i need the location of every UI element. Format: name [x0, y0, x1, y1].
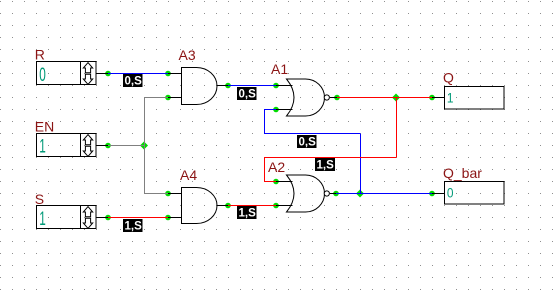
- node pin dot R output: [105, 71, 111, 77]
- svg-text:A4: A4: [180, 167, 197, 183]
- node pin dot A2 input top: [273, 179, 279, 185]
- wire A2out to A1 blue segment c: [264, 133, 360, 135]
- wire Qbar net blue: [336, 193, 432, 195]
- svg-text:A2: A2: [268, 159, 285, 175]
- NOR gate U A2: [283, 175, 329, 212]
- node pin dot A3 input top: [165, 71, 171, 77]
- input switch S: [37, 206, 97, 230]
- wire A1 output stub black: [330, 97, 337, 99]
- wire Q feedback red horizontal: [264, 157, 396, 159]
- junction node Q feedback: [392, 94, 400, 102]
- svg-text:0,S: 0,S: [239, 89, 257, 101]
- svg-text:1,S: 1,S: [317, 160, 335, 172]
- wire Q feedback red vertical: [396, 98, 398, 158]
- node pin dot A3 output: [225, 83, 231, 89]
- svg-text:0,S: 0,S: [299, 137, 317, 149]
- wire value label A2out 0,S: [297, 135, 317, 149]
- wire A4 output stub black: [217, 205, 228, 207]
- node pin dot Q_bar input: [429, 191, 435, 197]
- wire A2 output stub black: [330, 193, 336, 195]
- wire value label R 0,S: [123, 74, 143, 88]
- wire A4 to A2 red: [228, 205, 276, 207]
- node pin dot EN output: [105, 143, 111, 149]
- svg-text:1,S: 1,S: [239, 208, 257, 220]
- wire Q feedback red vertical b: [264, 158, 266, 182]
- wire A1 top input stub black: [276, 85, 293, 87]
- wire EN stub black: [96, 145, 108, 147]
- node pin dot A2 input bottom: [273, 203, 279, 209]
- svg-text:1: 1: [39, 137, 46, 157]
- node pin dot A3 input bottom: [165, 95, 171, 101]
- svg-text:1: 1: [39, 209, 46, 229]
- junction node Qbar net: [356, 190, 364, 198]
- node pin dot A1 output: [334, 95, 340, 101]
- wire A3 output stub black: [217, 85, 228, 87]
- wire value label Qfb 1,S: [315, 158, 335, 172]
- junction node EN net: [140, 142, 148, 150]
- wire A2 bottom input stub black: [276, 205, 293, 207]
- wire Q feedback red to A2: [264, 181, 276, 183]
- wire Qbar input stub black: [432, 193, 444, 195]
- wire A4 top input stub black: [168, 193, 181, 195]
- node pin dot A4 input bottom: [165, 215, 171, 221]
- wire value label A3out 0,S: [237, 87, 257, 101]
- node pin dot A1 input bottom: [273, 107, 279, 113]
- wire A2out to A1 blue segment a: [264, 109, 276, 111]
- wire S stub black: [96, 217, 108, 219]
- svg-text:0: 0: [447, 185, 454, 201]
- NOR gate U A1: [283, 79, 329, 116]
- wire EN branch to A4 gray: [144, 193, 168, 195]
- wire A3 bottom input stub black: [168, 97, 181, 99]
- AND gate A3: [182, 68, 217, 105]
- wire R stub black: [96, 73, 108, 75]
- wire EN net gray horizontal: [108, 145, 144, 147]
- node pin dot A4 input top: [165, 191, 171, 197]
- wire A1 bottom input stub black: [276, 109, 293, 111]
- svg-text:1: 1: [447, 90, 454, 106]
- wire Q net red: [337, 97, 432, 99]
- wire value label A4out 1,S: [237, 206, 257, 220]
- svg-text:S: S: [35, 191, 44, 207]
- svg-text:0: 0: [39, 65, 46, 85]
- node pin dot S output: [105, 215, 111, 221]
- svg-text:0,S: 0,S: [125, 76, 143, 88]
- wire A4 bottom input stub black: [168, 217, 181, 219]
- node pin dot A2 output: [333, 191, 339, 197]
- svg-text:Q_bar: Q_bar: [443, 165, 482, 181]
- node pin dot A4 output: [225, 203, 231, 209]
- input switch R: [37, 62, 97, 86]
- node pin dot Q input: [429, 95, 435, 101]
- wire value label S 1,S: [123, 219, 143, 233]
- wire A3 to A1 blue: [228, 85, 276, 87]
- wire EN net gray vertical: [144, 98, 146, 194]
- wire S net red: [108, 217, 168, 219]
- svg-text:1,S: 1,S: [125, 221, 143, 233]
- input switch EN: [37, 134, 97, 158]
- output probe Q: [445, 87, 505, 110]
- wire EN branch to A3 gray: [144, 97, 168, 99]
- svg-text:A3: A3: [179, 47, 196, 63]
- wire R net blue: [108, 73, 168, 75]
- wire A2 top input stub black: [276, 181, 293, 183]
- svg-text:Q: Q: [443, 70, 454, 86]
- wire Q input stub black: [432, 97, 444, 99]
- node pin dot A1 input top: [273, 83, 279, 89]
- wire A2out to A1 blue segment b: [264, 110, 266, 134]
- wire A3 top input stub black: [168, 73, 181, 75]
- svg-text:EN: EN: [35, 119, 54, 135]
- output probe Q_bar: [445, 182, 505, 205]
- AND gate A4: [182, 188, 217, 224]
- svg-text:R: R: [35, 47, 45, 63]
- wire A2out to A1 blue segment d: [360, 134, 362, 194]
- svg-text:A1: A1: [271, 61, 288, 77]
